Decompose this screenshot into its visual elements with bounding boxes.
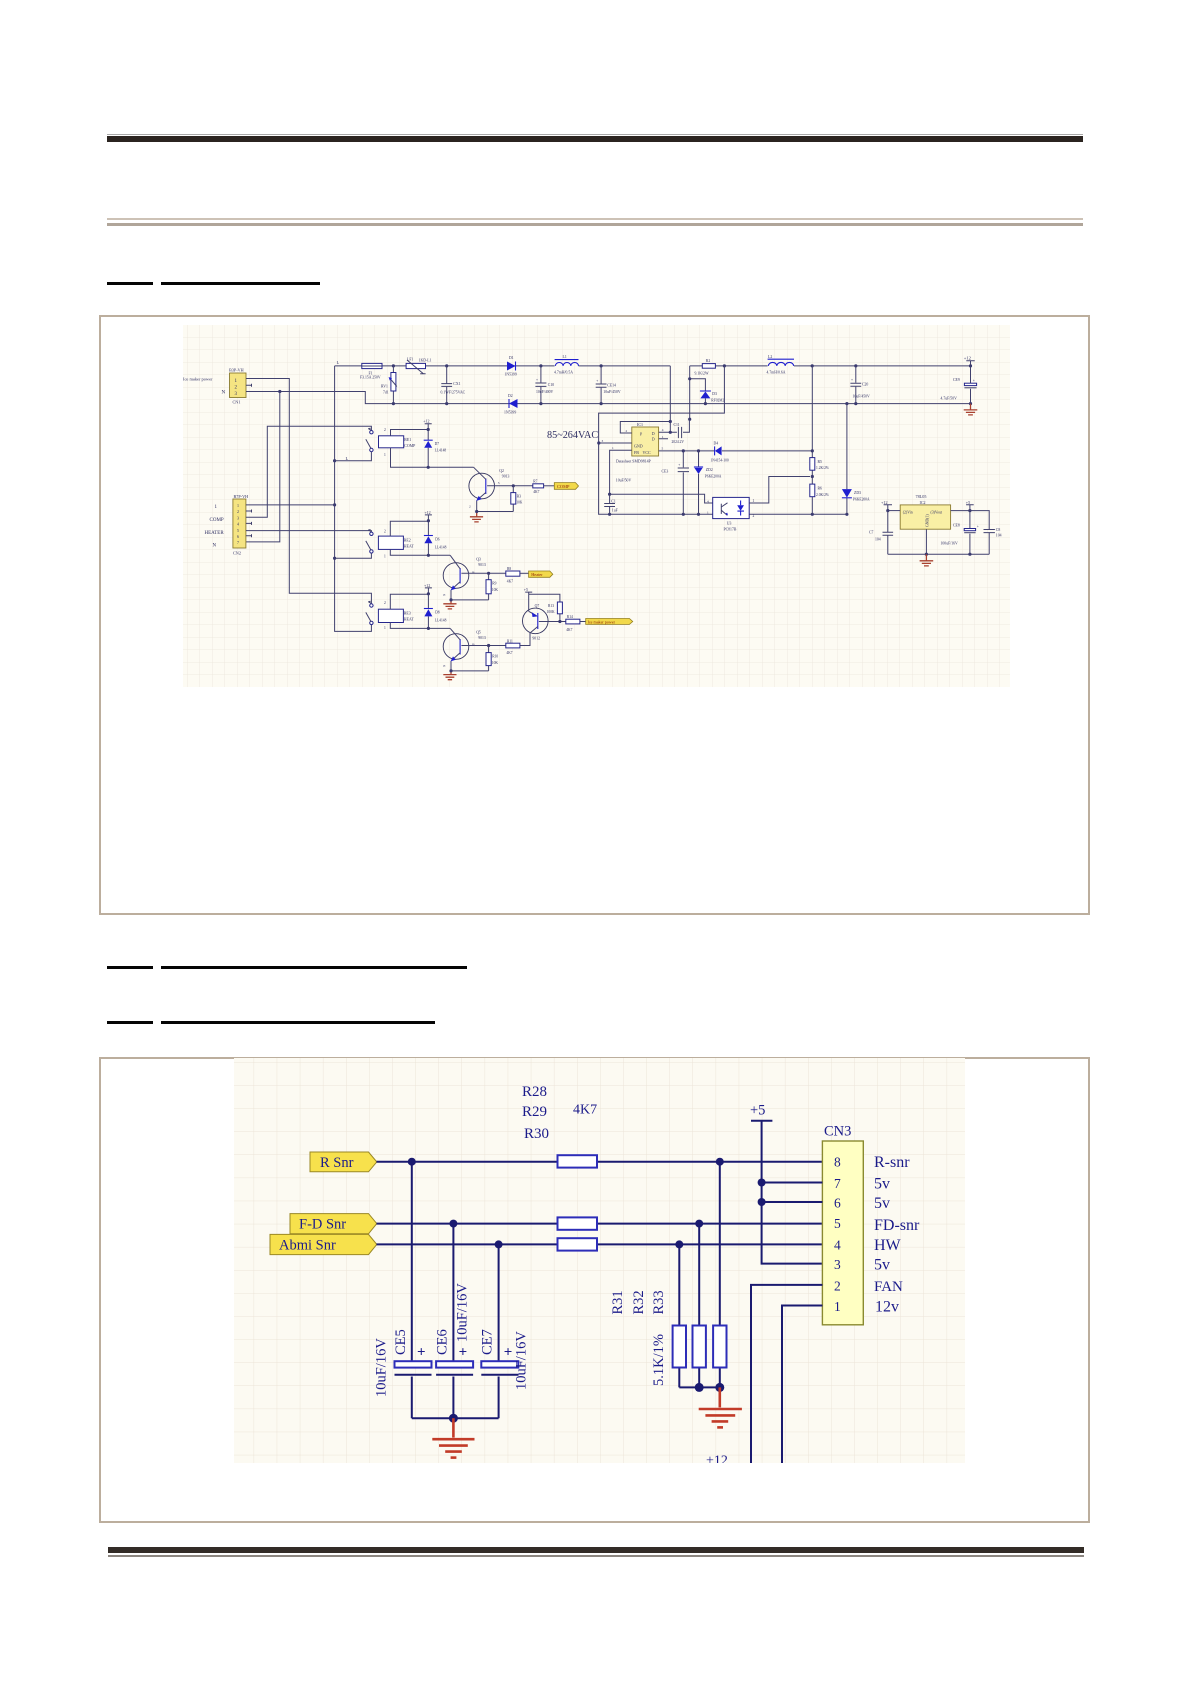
svg-text:1: 1 (753, 499, 755, 503)
svg-text:10uF/50V: 10uF/50V (616, 478, 632, 482)
svg-text:Q5: Q5 (476, 631, 481, 635)
svg-text:R14: R14 (567, 615, 573, 619)
svg-text:R2: R2 (706, 359, 711, 363)
SCHEMATIC 2: sensor connector CN3 (234, 1058, 965, 1463)
svg-text:CN2: CN2 (233, 550, 241, 555)
svg-text:ZD2: ZD2 (706, 468, 713, 472)
ground below IC2 (920, 554, 934, 566)
svg-text:D3: D3 (712, 392, 717, 396)
schematic sheet background (183, 325, 1010, 687)
svg-text:104: 104 (875, 538, 881, 542)
capacitor CE3 (616, 451, 689, 514)
capacitor C20 (850, 366, 870, 404)
resistor R31 (673, 1244, 686, 1387)
svg-text:RF02M2: RF02M2 (711, 399, 724, 403)
svg-text:1: 1 (237, 503, 239, 508)
svg-text:HEAT: HEAT (404, 545, 415, 549)
svg-text:R10: R10 (492, 655, 498, 659)
power port +5 (750, 1103, 822, 1264)
svg-text:+12: +12 (881, 500, 888, 505)
svg-text:4: 4 (237, 522, 239, 527)
svg-text:IC1: IC1 (637, 422, 643, 427)
svg-text:1: 1 (834, 1299, 841, 1314)
tan double rule lower thick (107, 223, 1083, 227)
svg-text:R30: R30 (524, 1126, 549, 1142)
svg-text:(2)Vin: (2)Vin (903, 510, 913, 514)
transistor Q7 (523, 594, 549, 640)
svg-text:5: 5 (237, 528, 239, 533)
svg-text:1: 1 (707, 510, 709, 514)
wire net Abmi (377, 1243, 823, 1245)
wire pin6 to +5 (762, 1201, 823, 1203)
svg-text:4K7: 4K7 (573, 1103, 597, 1118)
svg-text:1N5399: 1N5399 (505, 372, 517, 376)
resistor R9 (486, 573, 498, 600)
figure box 2 (99, 1057, 1091, 1523)
IC1 left pin wires (599, 422, 671, 495)
wire pin1 12v (782, 1306, 822, 1464)
svg-text:C7: C7 (869, 531, 874, 535)
svg-text:(3)Vout: (3)Vout (931, 510, 943, 514)
diode D2 (504, 394, 518, 415)
wire capacitor ground bus (412, 1417, 499, 1419)
svg-text:L1: L1 (563, 355, 567, 359)
svg-text:N: N (222, 390, 226, 396)
svg-text:RV1: RV1 (381, 384, 388, 388)
svg-text:+5: +5 (524, 587, 528, 592)
svg-text:85~264VAC: 85~264VAC (547, 430, 598, 441)
svg-text:D: D (652, 431, 655, 436)
svg-text:FAN: FAN (874, 1279, 903, 1295)
relay contact S1 (335, 428, 386, 461)
resistor R5 (810, 366, 829, 484)
wire pin2 FAN (751, 1285, 822, 1463)
bottom dark bar (108, 1547, 1084, 1553)
svg-text:9013: 9013 (478, 563, 486, 567)
svg-text:4: 4 (662, 428, 664, 432)
thermistor LF1 (406, 358, 431, 374)
resistor R7 (533, 479, 555, 494)
resistor R30 (558, 1238, 598, 1250)
svg-text:D8: D8 (435, 610, 440, 614)
svg-text:1.2K/2%: 1.2K/2% (816, 466, 829, 470)
svg-text:3: 3 (498, 481, 500, 485)
connector CN3 (822, 1124, 863, 1325)
figure box 1 (99, 315, 1091, 915)
wire L bus vertical with switch hooks (335, 366, 372, 632)
op-amp controller IC1 SMD9814 (616, 422, 659, 463)
svg-text:C8: C8 (996, 528, 1001, 532)
svg-text:L: L (337, 360, 340, 365)
svg-text:D7: D7 (435, 442, 440, 446)
capacitor C7 (869, 511, 893, 555)
svg-text:F-D Snr: F-D Snr (299, 1217, 346, 1233)
fuse F1 (360, 363, 382, 379)
heading 3 underline long (161, 1021, 435, 1024)
net flag COMP (554, 483, 578, 490)
wire C1 node to opto pin 4 (610, 494, 713, 503)
svg-text:+: + (459, 1345, 468, 1361)
net flag Heater (529, 571, 553, 577)
svg-text:B3P-VH: B3P-VH (229, 367, 244, 372)
svg-text:2: 2 (384, 601, 386, 605)
wire net FD-snr (377, 1223, 823, 1225)
svg-text:2: 2 (469, 505, 471, 509)
svg-text:78L05: 78L05 (916, 494, 927, 499)
svg-text:Abmi Snr: Abmi Snr (279, 1237, 336, 1253)
capacitor C10 (535, 366, 554, 404)
svg-text:2: 2 (626, 429, 628, 433)
relay contact S3 (366, 601, 386, 630)
svg-text:HEAT: HEAT (404, 618, 415, 622)
wire Q5 base (461, 645, 505, 647)
svg-text:+: + (596, 379, 598, 383)
svg-text:RE1: RE1 (404, 438, 411, 442)
diode D1 (505, 356, 517, 376)
CN2 pin stubs 2 4 6 (246, 510, 252, 538)
svg-text:CX1: CX1 (453, 382, 460, 386)
ground at Q2 emitter (470, 512, 483, 522)
svg-text:2: 2 (753, 514, 755, 518)
svg-text:2024.2V: 2024.2V (672, 440, 685, 444)
IC1 right pin wire and capacitor C11 (659, 419, 690, 444)
svg-text:C1: C1 (611, 499, 616, 503)
svg-text:4.7mH/0.6A: 4.7mH/0.6A (767, 371, 786, 375)
top header rule: thin gray line (107, 134, 1083, 135)
svg-text:R5: R5 (818, 460, 823, 464)
optocoupler U3 PC817 (707, 497, 755, 531)
svg-text:FB: FB (634, 450, 639, 455)
ground at Q3 emitter (443, 600, 456, 609)
svg-text:0.1WF/275VAC: 0.1WF/275VAC (441, 391, 466, 395)
svg-text:1N5399: 1N5399 (504, 410, 516, 414)
relay RE2 (378, 521, 450, 555)
power port +12 at RE2 (424, 510, 432, 523)
svg-text:PC817B: PC817B (724, 528, 737, 532)
svg-text:1: 1 (612, 446, 614, 450)
resistor R29 (558, 1217, 598, 1229)
varistor RV1 (381, 366, 397, 404)
capacitor CE6 (434, 1224, 473, 1419)
heading 3 underline short (107, 1021, 154, 1024)
zener ZD3 (842, 404, 870, 515)
net flag Ice maker power (586, 619, 633, 625)
wire top rail down to IC node (669, 366, 671, 432)
svg-text:1: 1 (384, 626, 386, 630)
svg-text:12v: 12v (875, 1299, 899, 1316)
svg-text:R31: R31 (610, 1290, 626, 1314)
svg-text:+: + (678, 463, 680, 467)
svg-text:+5: +5 (750, 1103, 765, 1119)
svg-text:P6KE200A: P6KE200A (705, 474, 722, 478)
svg-text:10uF/400V: 10uF/400V (536, 390, 554, 394)
svg-text:Q7: Q7 (535, 604, 540, 608)
transistor Q3 (443, 555, 486, 600)
svg-text:R33: R33 (651, 1290, 667, 1314)
resistor R32 (693, 1224, 706, 1388)
svg-text:E: E (443, 593, 445, 597)
svg-text:8: 8 (834, 1155, 841, 1170)
capacitor C8 (984, 528, 1002, 538)
capacitor CE5 (374, 1162, 432, 1419)
wire net N from CN1 pin3 along lower rail (246, 392, 971, 404)
svg-text:RE3: RE3 (404, 612, 411, 616)
svg-text:COMP: COMP (404, 444, 416, 448)
CN1 pin2 stub (246, 384, 252, 387)
svg-text:R7: R7 (533, 479, 537, 483)
svg-text:+: + (977, 524, 979, 528)
wire IC2 input (888, 510, 900, 512)
power port +12 at RE3 (424, 583, 432, 596)
svg-text:CE5: CE5 (393, 1329, 409, 1355)
svg-text:6: 6 (834, 1196, 841, 1211)
svg-text:LL4148: LL4148 (435, 545, 447, 549)
power port +12 at RE1 (423, 419, 431, 432)
svg-text:L2: L2 (768, 355, 772, 359)
svg-text:CN3: CN3 (824, 1124, 851, 1140)
svg-text:7: 7 (834, 1176, 841, 1191)
svg-text:N: N (213, 544, 217, 549)
svg-text:D4: D4 (714, 441, 719, 445)
svg-text:4: 4 (834, 1238, 841, 1253)
svg-text:B7P-VH: B7P-VH (234, 494, 249, 499)
svg-text:R6: R6 (818, 486, 823, 490)
wire IC2 output to +5 (951, 511, 990, 555)
svg-text:+: + (504, 1345, 513, 1361)
svg-text:3: 3 (834, 1257, 841, 1272)
svg-text:Ice maker power: Ice maker power (588, 619, 616, 624)
junction N at CN1 pin3 (278, 390, 281, 393)
svg-text:10K: 10K (492, 661, 499, 665)
svg-text:ZD3: ZD3 (854, 491, 861, 495)
svg-text:+: + (851, 378, 853, 382)
heading 1 underline short (107, 282, 153, 285)
svg-text:9013: 9013 (478, 636, 486, 640)
svg-text:4.7uF/50V: 4.7uF/50V (941, 397, 958, 401)
wire top live rail (335, 365, 971, 367)
heading 2 underline short (107, 966, 154, 969)
diode D6 (424, 521, 447, 557)
svg-text:COMP: COMP (557, 484, 570, 489)
wire R2 corner down to D3 and C11 node (690, 366, 706, 419)
svg-text:D: D (652, 437, 655, 442)
svg-text:2: 2 (237, 509, 239, 514)
svg-text:R3: R3 (517, 494, 521, 498)
wire CN2 pin3 to switch S1 (246, 426, 372, 517)
svg-text:Heater: Heater (531, 572, 543, 577)
svg-text:1: 1 (662, 435, 664, 439)
IC2 ground pin and bottom rail (888, 529, 989, 554)
relay contact S2 (335, 529, 386, 558)
svg-text:+12: +12 (424, 510, 430, 515)
svg-text:C10: C10 (548, 383, 554, 387)
svg-text:GND: GND (634, 443, 643, 448)
svg-text:1KD-L1: 1KD-L1 (419, 358, 432, 362)
wire Q5 emitter node to R10 (451, 670, 489, 672)
svg-text:F3.15A 250V: F3.15A 250V (360, 376, 381, 380)
svg-text:COMP: COMP (210, 518, 224, 523)
svg-text:CE6: CE6 (434, 1329, 450, 1355)
power port +5 at Q7 (524, 587, 532, 594)
svg-text:100uF/16V: 100uF/16V (941, 542, 959, 546)
svg-text:4K7: 4K7 (533, 490, 539, 494)
schematic sheet background (234, 1058, 965, 1463)
svg-text:CE14: CE14 (607, 384, 616, 388)
relay RE3 (378, 594, 450, 628)
tan double rule upper thin (107, 218, 1083, 220)
svg-text:C11: C11 (674, 423, 680, 427)
svg-text:U3: U3 (727, 521, 732, 525)
svg-text:1uF: 1uF (612, 509, 618, 513)
transistor Q2 (469, 467, 510, 511)
svg-text:10uF/16V: 10uF/16V (374, 1338, 390, 1397)
capacitor C1 (604, 494, 618, 514)
relay RE1 (379, 430, 474, 468)
resistor R8 (506, 567, 529, 584)
ground below capacitors (432, 1418, 474, 1457)
svg-text:CE3: CE3 (662, 470, 669, 474)
capacitor CE9 (941, 366, 977, 404)
svg-text:CE7: CE7 (480, 1329, 496, 1355)
svg-text:LL4148: LL4148 (435, 448, 447, 452)
svg-text:+12: +12 (423, 419, 429, 424)
svg-text:IC2: IC2 (920, 500, 926, 505)
wire Q7 collector (539, 621, 566, 623)
svg-text:Ice maker power: Ice maker power (183, 376, 213, 381)
top header rule: dark bar (107, 136, 1083, 143)
svg-text:FD-snr: FD-snr (874, 1217, 920, 1234)
power port +5 at IC2 output (966, 500, 974, 511)
svg-text:7d1: 7d1 (383, 391, 389, 395)
wire net R-snr (377, 1161, 823, 1163)
svg-text:D6: D6 (435, 537, 440, 541)
resistor R10 (486, 646, 498, 671)
CN2 pin1 wire to L bus (246, 504, 335, 506)
inductor L2 (767, 355, 795, 375)
svg-text:10K: 10K (516, 500, 523, 504)
wire resistor ground bus (679, 1386, 720, 1388)
svg-text:Q2: Q2 (499, 469, 504, 473)
heading 1 underline long (161, 282, 321, 285)
resistor R3 (511, 486, 523, 512)
svg-text:HW: HW (874, 1237, 902, 1254)
capacitor CE7 (480, 1244, 530, 1418)
wire Q2 emitter node to R3 (477, 511, 514, 513)
svg-text:R8: R8 (507, 567, 511, 571)
resistor R13 (547, 602, 563, 622)
wire Q3 emitter node to R9 (451, 599, 489, 601)
wire Q3 base (461, 572, 505, 574)
capacitor CX1 (441, 366, 466, 404)
svg-text:LF1: LF1 (407, 358, 413, 362)
zener D3 (700, 391, 725, 404)
svg-text:R9: R9 (492, 582, 496, 586)
svg-text:5.1K/1%: 5.1K/1% (651, 1334, 667, 1386)
power port +12 at IC2 input (881, 500, 892, 511)
wire +5 node to R13 (529, 594, 560, 602)
svg-text:D2: D2 (508, 394, 513, 398)
svg-text:CN1: CN1 (233, 399, 241, 404)
svg-text:5v: 5v (874, 1257, 890, 1274)
svg-text:1: 1 (384, 554, 386, 558)
svg-text:2: 2 (834, 1278, 841, 1293)
net flag F-D Snr (290, 1214, 377, 1234)
svg-text:R29: R29 (522, 1104, 547, 1120)
svg-text:CE9: CE9 (953, 378, 960, 382)
capacitor CE8 (941, 511, 979, 555)
capacitor CE14 (596, 366, 621, 404)
resistor R11 (506, 633, 530, 655)
bottom gray line (108, 1555, 1084, 1557)
inductor L1 (554, 355, 579, 375)
svg-text:5v: 5v (874, 1176, 890, 1193)
svg-text:3: 3 (602, 439, 604, 443)
resistor R28 (558, 1155, 598, 1167)
svg-text:+12: +12 (964, 356, 972, 361)
heading 2 underline long (161, 966, 467, 969)
svg-text:2: 2 (384, 529, 386, 533)
svg-text:7: 7 (237, 540, 239, 545)
svg-text:1: 1 (384, 453, 386, 457)
svg-text:+12: +12 (424, 583, 430, 588)
svg-text:4.7mH/0.5A: 4.7mH/0.5A (554, 371, 573, 375)
ground below resistors (699, 1387, 742, 1427)
svg-text:C20: C20 (862, 382, 868, 386)
wire CN2 pin5 to switch S2 (246, 531, 372, 533)
svg-text:D1: D1 (509, 356, 514, 360)
svg-text:1N4154-100: 1N4154-100 (711, 459, 729, 463)
svg-text:5: 5 (662, 447, 664, 451)
wire Q2 base (487, 485, 533, 487)
svg-text:2.0K/2%: 2.0K/2% (816, 493, 829, 497)
ground below CE9 (964, 404, 978, 415)
connector CN1 (183, 367, 246, 404)
svg-text:3: 3 (237, 515, 239, 520)
svg-text:4K7: 4K7 (507, 580, 513, 584)
diode D7 (424, 430, 447, 469)
svg-text:Datasheet SMD9814P: Datasheet SMD9814P (616, 459, 652, 463)
IC1 bottom pin wire to D4 (659, 450, 813, 452)
SCHEMATIC 1: switching power supply (183, 325, 1010, 687)
svg-text:VCC: VCC (643, 450, 652, 455)
wire N to CN2 pin7 (246, 392, 280, 542)
diode D4 (711, 441, 729, 462)
svg-text:5v: 5v (874, 1195, 890, 1212)
svg-text:Q3: Q3 (476, 558, 481, 562)
svg-text:R13: R13 (548, 604, 554, 608)
svg-text:9013: 9013 (502, 475, 510, 479)
svg-text:+12: +12 (706, 1454, 728, 1464)
svg-text:10uF/16V: 10uF/16V (454, 1283, 470, 1342)
svg-text:R-snr: R-snr (874, 1154, 910, 1171)
svg-text:6: 6 (237, 534, 239, 539)
svg-text:CE8: CE8 (953, 523, 960, 527)
svg-text:10uF/450V: 10uF/450V (853, 394, 871, 398)
svg-text:+: + (536, 378, 538, 382)
svg-text:R Snr: R Snr (320, 1155, 354, 1171)
wire lower rail jog to bottom rail (599, 366, 847, 514)
ground at Q5 emitter (443, 671, 456, 680)
svg-text:R28: R28 (522, 1084, 547, 1100)
resistor R6 (810, 484, 829, 514)
net flag Abmi Snr (270, 1234, 377, 1254)
resistor R33 (713, 1162, 726, 1388)
svg-text:2: 2 (384, 428, 386, 432)
svg-text:10uF/16V: 10uF/16V (513, 1331, 529, 1390)
connector CN2 (205, 494, 249, 556)
svg-text:HEATER: HEATER (205, 531, 225, 536)
power port +12 top right (964, 356, 975, 366)
